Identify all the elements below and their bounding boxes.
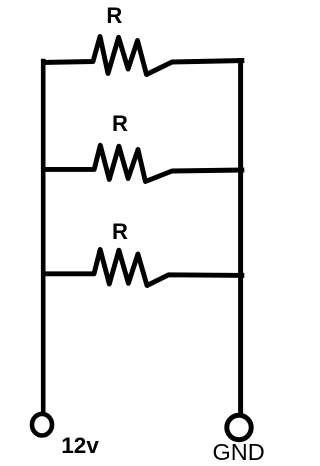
svg-text:R: R bbox=[112, 111, 128, 136]
svg-text:R: R bbox=[106, 3, 122, 28]
svg-text:GND: GND bbox=[213, 439, 265, 465]
svg-text:12v: 12v bbox=[61, 433, 99, 458]
svg-text:R: R bbox=[112, 219, 128, 244]
